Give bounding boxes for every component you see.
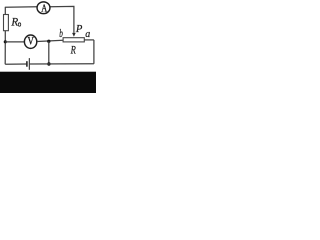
wire: bottom, right segment from battery — [30, 63, 94, 65]
svg-text:A: A — [41, 2, 47, 14]
background — [0, 0, 96, 93]
resistor R0 box — [4, 15, 9, 31]
battery long thin plate — [28, 58, 30, 70]
black bottom strip — [0, 72, 96, 93]
wire: ammeter to top-right corner, down to slider — [50, 6, 74, 33]
wire: mid vertical down to bottom wire — [48, 41, 50, 64]
wire: top horizontal, left segment to ammeter — [5, 6, 37, 9]
slider arrowhead P — [72, 33, 76, 37]
wire: left vertical, R0 down to bottom wire — [4, 31, 6, 65]
svg-text:V: V — [28, 36, 34, 48]
junction node B — [47, 40, 50, 43]
wire: voltmeter to junction B and rheostat terminal b — [37, 40, 63, 41]
rheostat R box — [63, 38, 84, 42]
wire: right vertical — [93, 40, 95, 64]
svg-text:b: b — [59, 28, 63, 40]
svg-text:R: R — [70, 45, 76, 57]
svg-text:a: a — [85, 28, 90, 40]
wire: voltmeter branch, left segment — [5, 41, 24, 43]
wire: bottom, left segment to battery — [5, 63, 26, 65]
svg-text:R: R — [10, 15, 18, 29]
junction node on left wire — [4, 40, 7, 43]
wire: left vertical, top wire down to R0 — [4, 7, 6, 15]
voltmeter V — [24, 35, 36, 48]
wire: rheostat terminal a to right edge — [84, 39, 94, 41]
ammeter A — [37, 2, 50, 14]
junction node on bottom wire — [47, 62, 50, 65]
svg-text:P: P — [75, 24, 83, 35]
battery short thick plate — [26, 61, 28, 66]
